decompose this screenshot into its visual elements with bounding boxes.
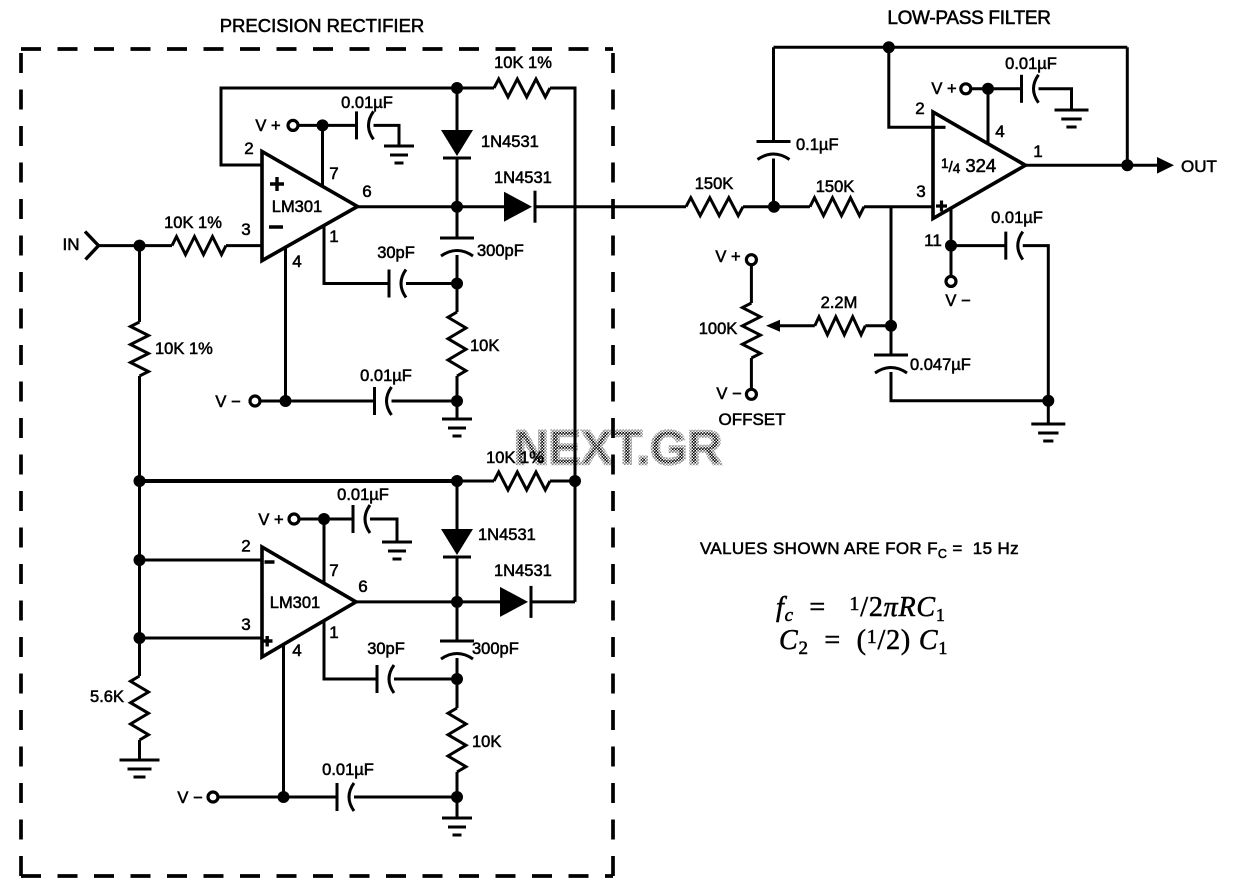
capacitor C 30pF (bottom) [377, 665, 394, 693]
node U2 pin4 junction [278, 791, 290, 803]
svg-text:1N4531: 1N4531 [481, 133, 539, 151]
svg-text:300pF: 300pF [472, 640, 519, 658]
section title PRECISION RECTIFIER [220, 15, 425, 36]
capacitor C 0.01uF (U2 V+ bypass) [353, 505, 370, 533]
wire V+ to pin4 node [971, 87, 1022, 90]
wire U1 output [358, 205, 505, 208]
op-amp U2 LM301 (bottom rectifier) [262, 547, 356, 657]
svg-text:4: 4 [292, 641, 301, 660]
label 1N4531 (D2) [494, 169, 552, 187]
node V+ junction (U2) [318, 513, 330, 525]
svg-text:V −: V − [215, 393, 240, 411]
capacitor C 0.01uF (U1 V+ bypass) [357, 111, 374, 139]
resistor R 10K 1% (shunt divider) [131, 322, 149, 376]
label V+ (offset pot) [715, 248, 740, 266]
U3 pin 2 label [915, 99, 924, 118]
capacitor C 300pF (bottom) [440, 641, 474, 659]
terminal V+ (U2) [289, 514, 299, 524]
svg-text:V +: V + [258, 511, 283, 529]
svg-text:0.1µF: 0.1µF [796, 136, 839, 154]
node top feedback junction [883, 41, 895, 53]
wire node to diode D3 [456, 481, 459, 529]
resistor R 150K (first) [686, 198, 743, 216]
svg-text:6: 6 [358, 577, 367, 596]
ground (U1 V+ bypass) [384, 146, 414, 163]
wire C 300pF to node B1 [456, 255, 459, 284]
resistor R 10K (bottom) [448, 708, 466, 772]
svg-text:1N4531: 1N4531 [494, 562, 552, 580]
U2 pin 2 label [241, 537, 250, 556]
svg-text:0.01µF: 0.01µF [991, 209, 1043, 227]
note VALUES SHOWN [700, 539, 1019, 561]
U3 pin 3 label [916, 182, 925, 201]
svg-text:300pF: 300pF [477, 242, 524, 260]
input terminal chevron [85, 232, 99, 260]
ground (R 5.6K) [120, 760, 160, 777]
svg-text:10K: 10K [472, 733, 501, 751]
label 1N4531 (D4) [494, 562, 552, 580]
label 1N4531 (D3) [478, 526, 536, 544]
wire input resistor to op-amp pin3 [226, 244, 262, 247]
wire V- bypass cap to node [392, 400, 458, 403]
wire output node to C 300pF [456, 207, 459, 238]
wire pot top [750, 265, 753, 303]
svg-text:V −: V − [945, 292, 970, 310]
label V- (U2 supply) [177, 789, 202, 807]
svg-text:1: 1 [329, 623, 338, 642]
ground (top V- bypass) [442, 419, 472, 436]
wire summing line vertical [574, 88, 577, 602]
capacitor C2 0.047uF [874, 355, 908, 373]
wire V- bypass cap to ground corner [1023, 246, 1049, 401]
svg-text:10K 1%: 10K 1% [164, 214, 222, 232]
label 10K 1% (shunt divider) [155, 340, 213, 358]
terminal V+ (U3) [961, 84, 971, 94]
label 10K (top) [470, 337, 499, 355]
label V- (U1 supply) [215, 393, 240, 411]
wire U2 output node to C 300pF [456, 602, 459, 641]
wire R 5.6K to ground [138, 740, 141, 760]
node bottom rail junction [1042, 395, 1054, 407]
label 10K 1% (feedback, bottom) [486, 449, 544, 467]
capacitor C 0.01uF (U3 V+ bypass) [1022, 75, 1039, 103]
ground (U2 V+ bypass) [382, 542, 412, 559]
svg-text:VALUES SHOWN ARE FOR FC = 15: VALUES SHOWN ARE FOR FC = 15 Hz [700, 539, 1019, 561]
svg-text:1: 1 [329, 227, 338, 246]
resistor R 10K 1% (feedback, bottom) [494, 472, 550, 490]
terminal V- (U3) [946, 276, 956, 286]
svg-text:1N4531: 1N4531 [478, 526, 536, 544]
wire D2 to low-pass filter [535, 205, 686, 208]
label 10K 1% (series input, top) [164, 214, 222, 232]
U1 pin 1 label [329, 227, 338, 246]
svg-text:6: 6 [362, 182, 371, 201]
wire U1 pin2 feedback (left and up) [221, 88, 457, 165]
label 0.047uF [910, 356, 971, 374]
label 0.01uF (U1 V+ bypass) [341, 94, 393, 112]
capacitor C 0.01uF (U3 V- bypass) [1006, 232, 1023, 260]
wire bottom rail to ground [1047, 401, 1050, 424]
svg-text:100K: 100K [699, 320, 738, 338]
wiper arrow of pot [766, 320, 815, 332]
node B1 junction [451, 278, 463, 290]
watermark NEXT.GR [505, 422, 730, 475]
wire feedback resistor left stub [457, 87, 494, 90]
label 150K (first) [695, 175, 734, 193]
label V- (U3 supply) [945, 292, 970, 310]
label 0.1uF [796, 136, 839, 154]
wire pin11 to V- bypass cap [951, 244, 1006, 247]
svg-text:10K 1%: 10K 1% [155, 340, 213, 358]
node U2 output junction [451, 596, 463, 608]
wire U2 pin3 input [140, 637, 263, 640]
svg-text:V −: V − [177, 789, 202, 807]
terminal V+ (U1) [288, 120, 298, 130]
wire V- line left [260, 400, 375, 403]
node input junction [134, 240, 146, 252]
wire node B1 to R 10K [456, 284, 459, 313]
dashed border of precision rectifier section [21, 49, 613, 876]
wire C 30pF to node B2 [394, 678, 457, 681]
terminal V- (U1) [250, 396, 260, 406]
wire D4 to summing line [531, 600, 575, 603]
output arrow [1157, 157, 1174, 174]
wire junction A1 to diode D1 [456, 88, 459, 130]
U1 pin 6 label [362, 182, 371, 201]
wire to ground stub (top V-) [456, 401, 459, 419]
wire IN to input node [99, 244, 173, 247]
capacitor C 0.01uF (U2 V- bypass) [337, 783, 354, 811]
label 1N4531 (D1) [481, 133, 539, 151]
wire C2 to bottom rail [891, 372, 1048, 401]
U1 pin 4 label [292, 252, 301, 271]
label 0.01uF (U2 V- bypass) [322, 761, 374, 779]
ground (U3 V+ bypass) [1055, 110, 1089, 127]
node lower feedback mid junction [451, 475, 463, 487]
U2 pin 3 label [241, 615, 250, 634]
svg-text:OUT: OUT [1181, 157, 1217, 176]
svg-text:10K 1%: 10K 1% [486, 449, 544, 467]
wire C 300pF to node B2 [456, 658, 459, 679]
wire U3 pin4 drop [987, 89, 990, 145]
terminal V- (U2) [208, 792, 218, 802]
wire R 10K to V- line (bottom) [456, 772, 459, 797]
node V- ground junction (top) [451, 395, 463, 407]
wire U2 bypass cap to ground [370, 519, 397, 542]
wire feedback resistor to summing line [550, 88, 575, 207]
label 30pF (top) [377, 244, 415, 262]
diode D4 1N4531 (series, bottom) [500, 586, 531, 618]
svg-text:LOW-PASS FILTER: LOW-PASS FILTER [887, 8, 1050, 29]
node V+ junction (U1) [317, 119, 329, 131]
node V- ground junction (bottom) [451, 791, 463, 803]
svg-text:0.01µF: 0.01µF [322, 761, 374, 779]
label 0.01uF (U1 V- bypass) [360, 367, 412, 385]
label 10K 1% (feedback, top) [494, 54, 552, 72]
svg-text:5.6K: 5.6K [90, 688, 124, 706]
svg-text:0.01µF: 0.01µF [337, 486, 389, 504]
diode D1 1N4531 (clamp, top) [441, 130, 473, 158]
label V+ (U2 supply) [258, 511, 283, 529]
wire C 30pF to node B1 [406, 282, 457, 285]
node summing line junction [569, 475, 581, 487]
wire C 0.1uF to 150K junction [772, 159, 775, 207]
wire pin7 drop [321, 125, 324, 187]
resistor R 150K (second) [810, 198, 864, 216]
svg-text:0.01µF: 0.01µF [360, 367, 412, 385]
diode D2 1N4531 (series, top) [504, 191, 535, 223]
label V+ (U1 supply) [255, 117, 280, 135]
svg-text:V +: V + [931, 80, 956, 98]
wire node B2 to R 10K [456, 679, 459, 708]
wire U2 pin2 input [140, 559, 263, 562]
resistor R 2.2M [815, 317, 866, 335]
label 0.01uF (U3 V+ bypass) [1005, 55, 1057, 73]
wire bottom feedback resistor left stub [457, 480, 494, 483]
wire bypass cap to ground [374, 125, 400, 146]
U1 pin 3 label [241, 220, 250, 239]
label 300pF (top) [477, 242, 524, 260]
label 150K (second) [816, 178, 855, 196]
U1 pin 7 label [329, 164, 338, 183]
svg-text:PRECISION RECTIFIER: PRECISION RECTIFIER [220, 15, 425, 36]
terminal V- (offset pot) [746, 389, 756, 399]
wire U2 pin4 drop [282, 644, 285, 797]
svg-text:0.01µF: 0.01µF [341, 94, 393, 112]
wire U2 pin1 down [324, 620, 377, 679]
wire divider resistor down to lower node [138, 376, 141, 481]
wire low-pass feedback top [774, 46, 1128, 49]
U2 pin 1 label [329, 623, 338, 642]
wire input node down [138, 246, 141, 322]
svg-text:2.2M: 2.2M [821, 294, 858, 312]
svg-text:11: 11 [924, 231, 942, 250]
label V+ (U3 supply) [931, 80, 956, 98]
wire second 150K to U3 pin3 [864, 205, 933, 208]
svg-text:1: 1 [1033, 142, 1042, 161]
op-amp U1 LM301 (top rectifier) [262, 152, 358, 261]
wire D1 to output node [456, 158, 459, 207]
label V- (offset pot) [716, 385, 741, 403]
wire U3 pin2 feedback drop [889, 47, 933, 127]
svg-text:7: 7 [329, 164, 338, 183]
svg-text:LM301: LM301 [270, 594, 320, 612]
label OFFSET [718, 410, 785, 429]
wire lower feedback line [140, 479, 458, 483]
wire left rail to U2 inputs [138, 481, 141, 638]
U2 pin 6 label [358, 577, 367, 596]
label 5.6K [90, 688, 124, 706]
wire U3 output [1025, 164, 1158, 167]
svg-text:150K: 150K [816, 178, 855, 196]
resistor R 10K (top) [448, 312, 466, 376]
wire between 150K resistors [743, 205, 810, 208]
U2 pin 7 label [329, 561, 338, 580]
node feedback junction A1 [451, 82, 463, 94]
node U2 pin2 junction [134, 554, 146, 566]
label 30pF (bottom) [367, 640, 405, 658]
svg-text:10K 1%: 10K 1% [494, 54, 552, 72]
wire pot bottom [750, 358, 753, 389]
svg-text:fc = 1/2πRC1: fc = 1/2πRC1 [776, 592, 946, 626]
node 2.2M junction [885, 320, 897, 332]
wire U3 bypass cap to ground [1039, 89, 1072, 110]
svg-text:0.047µF: 0.047µF [910, 356, 971, 374]
svg-text:V +: V + [715, 248, 740, 266]
wire U2 pin7 drop [323, 519, 326, 584]
capacitor C 0.01uF (U1 V- bypass) [375, 387, 392, 415]
node U1 pin4 junction [280, 395, 292, 407]
label 300pF (bottom) [472, 640, 519, 658]
svg-text:4: 4 [995, 122, 1004, 141]
label 0.01uF (U2 V+ bypass) [337, 486, 389, 504]
wire to ground stub (bottom V-) [456, 797, 459, 818]
wire U2 pin3 node down to R 5.6K [138, 638, 141, 676]
svg-text:1N4531: 1N4531 [494, 169, 552, 187]
svg-text:V +: V + [255, 117, 280, 135]
wire top left drop to C 0.1uF [772, 47, 775, 141]
svg-text:150K: 150K [695, 175, 734, 193]
svg-text:LM301: LM301 [272, 198, 322, 216]
label 10K (bottom) [472, 733, 501, 751]
wire U2 output [356, 600, 500, 603]
svg-text:10K: 10K [470, 337, 499, 355]
op-amp U3 1/4 324 [933, 112, 1025, 219]
svg-text:3: 3 [241, 220, 250, 239]
svg-text:V −: V − [716, 385, 741, 403]
wire U1 pin4 drop [284, 248, 287, 402]
wire V- line left (bottom) [218, 796, 337, 799]
section title LOW-PASS FILTER [887, 8, 1050, 29]
wire U3 pin11 drop [950, 209, 953, 277]
label 100K [699, 320, 738, 338]
node lower feedback left junction [134, 475, 146, 487]
wire U2 V- bypass cap to node [354, 796, 457, 799]
svg-text:1/4 324: 1/4 324 [941, 155, 996, 176]
svg-text:4: 4 [292, 252, 301, 271]
resistor R 10K 1% (feedback, top) [494, 79, 550, 97]
wire 2.2M to pin3 node [865, 324, 891, 327]
wire V+ to pin7 node [298, 124, 357, 127]
svg-text:7: 7 [329, 561, 338, 580]
svg-text:OFFSET: OFFSET [718, 410, 785, 429]
terminal V+ (offset pot) [746, 255, 756, 265]
label 2.2M [821, 294, 858, 312]
U2 pin 4 label [292, 641, 301, 660]
wire R 10K to V- line [456, 376, 459, 401]
diode D3 1N4531 (clamp, bottom) [441, 529, 473, 557]
U3 pin 4 label [995, 122, 1004, 141]
node IN label [63, 235, 80, 254]
label 0.01uF (U3 V- bypass) [991, 209, 1043, 227]
node pin11 junction [945, 240, 957, 252]
node U2 pin3 junction [134, 632, 146, 644]
formula C2 [779, 625, 948, 659]
resistor R 5.6K [131, 676, 149, 740]
svg-text:0.01µF: 0.01µF [1005, 55, 1057, 73]
wire D3 to U2 output line [456, 557, 459, 602]
wire V+ to pin7 node (U2) [299, 518, 353, 521]
svg-text:2: 2 [244, 139, 253, 158]
node U1 output junction [451, 201, 463, 213]
wire top feedback right drop [1126, 47, 1129, 165]
capacitor C 30pF (top) [389, 270, 406, 298]
wire bottom feedback resistor to summing line [550, 480, 575, 483]
ground (bottom V- bypass) [442, 818, 472, 835]
svg-text:30pF: 30pF [367, 640, 405, 658]
U1 pin 2 label [244, 139, 253, 158]
svg-text:3: 3 [241, 615, 250, 634]
node B2 junction [451, 673, 463, 685]
node 150K junction [768, 201, 780, 213]
svg-text:30pF: 30pF [377, 244, 415, 262]
node V+ junction (U3) [982, 83, 994, 95]
resistor R 10K 1% (series input, top) [172, 237, 226, 255]
wire pin3 drop [890, 207, 893, 326]
node output junction [1121, 159, 1133, 171]
formula fc [776, 592, 946, 626]
svg-text:2: 2 [241, 537, 250, 556]
svg-text:2: 2 [915, 99, 924, 118]
wire 2.2M node to C2 [890, 326, 893, 355]
potentiometer R 100K [742, 303, 760, 358]
U3 pin 1 label [1033, 142, 1042, 161]
wire U1 pin1 down [324, 226, 389, 284]
svg-text:IN: IN [63, 235, 80, 254]
svg-text:3: 3 [916, 182, 925, 201]
ground (low-pass filter) [1031, 424, 1065, 441]
node OUT label [1181, 157, 1217, 176]
capacitor C 300pF (top) [440, 238, 474, 256]
capacitor C1 0.1uF [757, 142, 791, 160]
U3 pin 11 label [924, 231, 942, 250]
